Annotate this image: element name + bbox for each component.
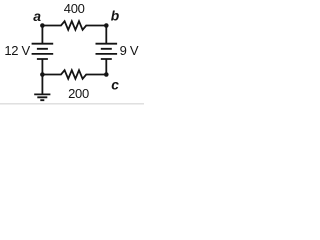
svg-text:c: c (111, 78, 119, 93)
svg-text:9 V: 9 V (120, 43, 139, 58)
svg-text:200: 200 (68, 86, 89, 101)
svg-text:400: 400 (64, 1, 85, 16)
svg-text:a: a (33, 8, 41, 24)
svg-text:b: b (111, 9, 120, 24)
svg-text:12 V: 12 V (4, 43, 30, 58)
